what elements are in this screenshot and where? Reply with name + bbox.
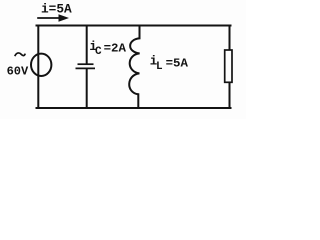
wire right lower — [229, 82, 231, 108]
wire bottom — [37, 107, 231, 109]
wire top — [37, 25, 231, 27]
svg-text:60V: 60V — [7, 65, 29, 79]
svg-text:L: L — [156, 61, 163, 73]
wire inductor branch upper — [139, 26, 141, 39]
wire inductor branch lower — [137, 94, 139, 108]
wire left — [37, 26, 39, 109]
wire capacitor branch lower — [86, 69, 88, 108]
voltage source V 60V — [31, 54, 51, 76]
current arrow i — [37, 14, 69, 22]
resistor R box — [225, 50, 232, 82]
capacitor C plates — [76, 64, 96, 68]
inductor L coil — [129, 38, 139, 94]
svg-text:i=5A: i=5A — [41, 2, 72, 17]
svg-text:=2A: =2A — [104, 42, 127, 56]
tilde of source — [15, 53, 25, 56]
svg-text:C: C — [95, 46, 102, 58]
svg-text:=5A: =5A — [166, 56, 189, 70]
wire capacitor branch upper — [86, 26, 88, 64]
wire right upper — [229, 26, 231, 51]
